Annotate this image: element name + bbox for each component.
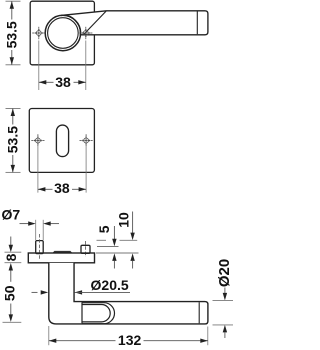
svg-text:38: 38 <box>54 180 70 196</box>
svg-text:50: 50 <box>2 285 18 301</box>
svg-text:10: 10 <box>115 212 131 228</box>
svg-text:132: 132 <box>118 332 142 348</box>
svg-text:5: 5 <box>96 225 112 233</box>
svg-text:8: 8 <box>3 253 19 261</box>
svg-text:53.5: 53.5 <box>3 21 19 48</box>
svg-text:Ø20.5: Ø20.5 <box>91 277 129 293</box>
svg-text:Ø20: Ø20 <box>216 259 233 287</box>
svg-text:Ø7: Ø7 <box>1 206 20 222</box>
svg-text:53.5: 53.5 <box>4 126 20 153</box>
svg-text:38: 38 <box>55 74 71 90</box>
